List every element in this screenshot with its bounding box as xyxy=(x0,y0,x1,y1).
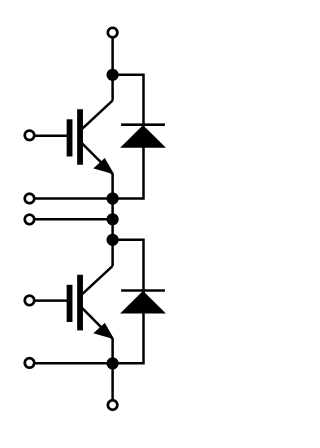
transistor Q1 (IGBT): body bar + gate bar xyxy=(70,109,81,165)
wire: aux emitter 2 terminal to node xyxy=(30,362,113,365)
junction: Q1 emitter / D1 anode node xyxy=(107,192,119,204)
terminal C (top collector) xyxy=(108,28,118,38)
wire: aux emitter 1 terminal to node xyxy=(30,197,113,200)
diode D1 (cathode bar + triangle) xyxy=(121,125,165,148)
wire: Q2 emitter down to bottom node xyxy=(111,339,114,364)
wire: gate G2 lead xyxy=(30,299,67,302)
Q1 emitter arrowhead xyxy=(94,159,113,174)
terminal aux emitter 1 xyxy=(25,194,35,204)
terminal E (bottom emitter) xyxy=(108,400,118,410)
wire: terminal C down to collector node xyxy=(111,33,114,75)
wire: midpoint output terminal to node xyxy=(30,218,113,221)
wire: diode D1 branch xyxy=(113,75,144,199)
junction: Q2 collector / D2 cathode node xyxy=(107,234,119,246)
terminal G2 (gate 2) xyxy=(25,296,35,306)
circuit: half-bridge IGBT module with anti-parallel diodes xyxy=(0,0,198,448)
wire: diode D2 branch xyxy=(113,240,144,363)
wire: node to Q2 collector bend xyxy=(111,240,114,266)
Q2 emitter arrowhead xyxy=(94,324,113,339)
wire: Q2 emitter diagonal xyxy=(80,306,113,339)
diode D2 (cathode bar + triangle) xyxy=(121,291,165,314)
wire: gate G1 lead xyxy=(30,134,67,137)
terminal aux emitter 2 xyxy=(25,358,35,368)
terminal midpoint output xyxy=(25,215,35,225)
wire: collector node to Q1 collector bend xyxy=(111,75,114,101)
junction: midpoint output node xyxy=(107,213,119,225)
wire: Q1 emitter diagonal xyxy=(80,141,113,174)
transistor Q2 (IGBT): body bar + gate bar xyxy=(70,275,81,331)
terminal G1 (gate 1) xyxy=(25,131,35,141)
wire: bottom node to terminal E xyxy=(111,363,114,405)
wire: Q1 emitter down through midpoint nodes xyxy=(111,174,114,240)
wire: Q2 collector diagonal xyxy=(80,266,113,296)
junction: Q2 emitter / D2 anode node xyxy=(107,357,119,369)
wire: Q1 collector diagonal xyxy=(80,101,113,131)
junction: top collector/diode node xyxy=(107,69,119,81)
